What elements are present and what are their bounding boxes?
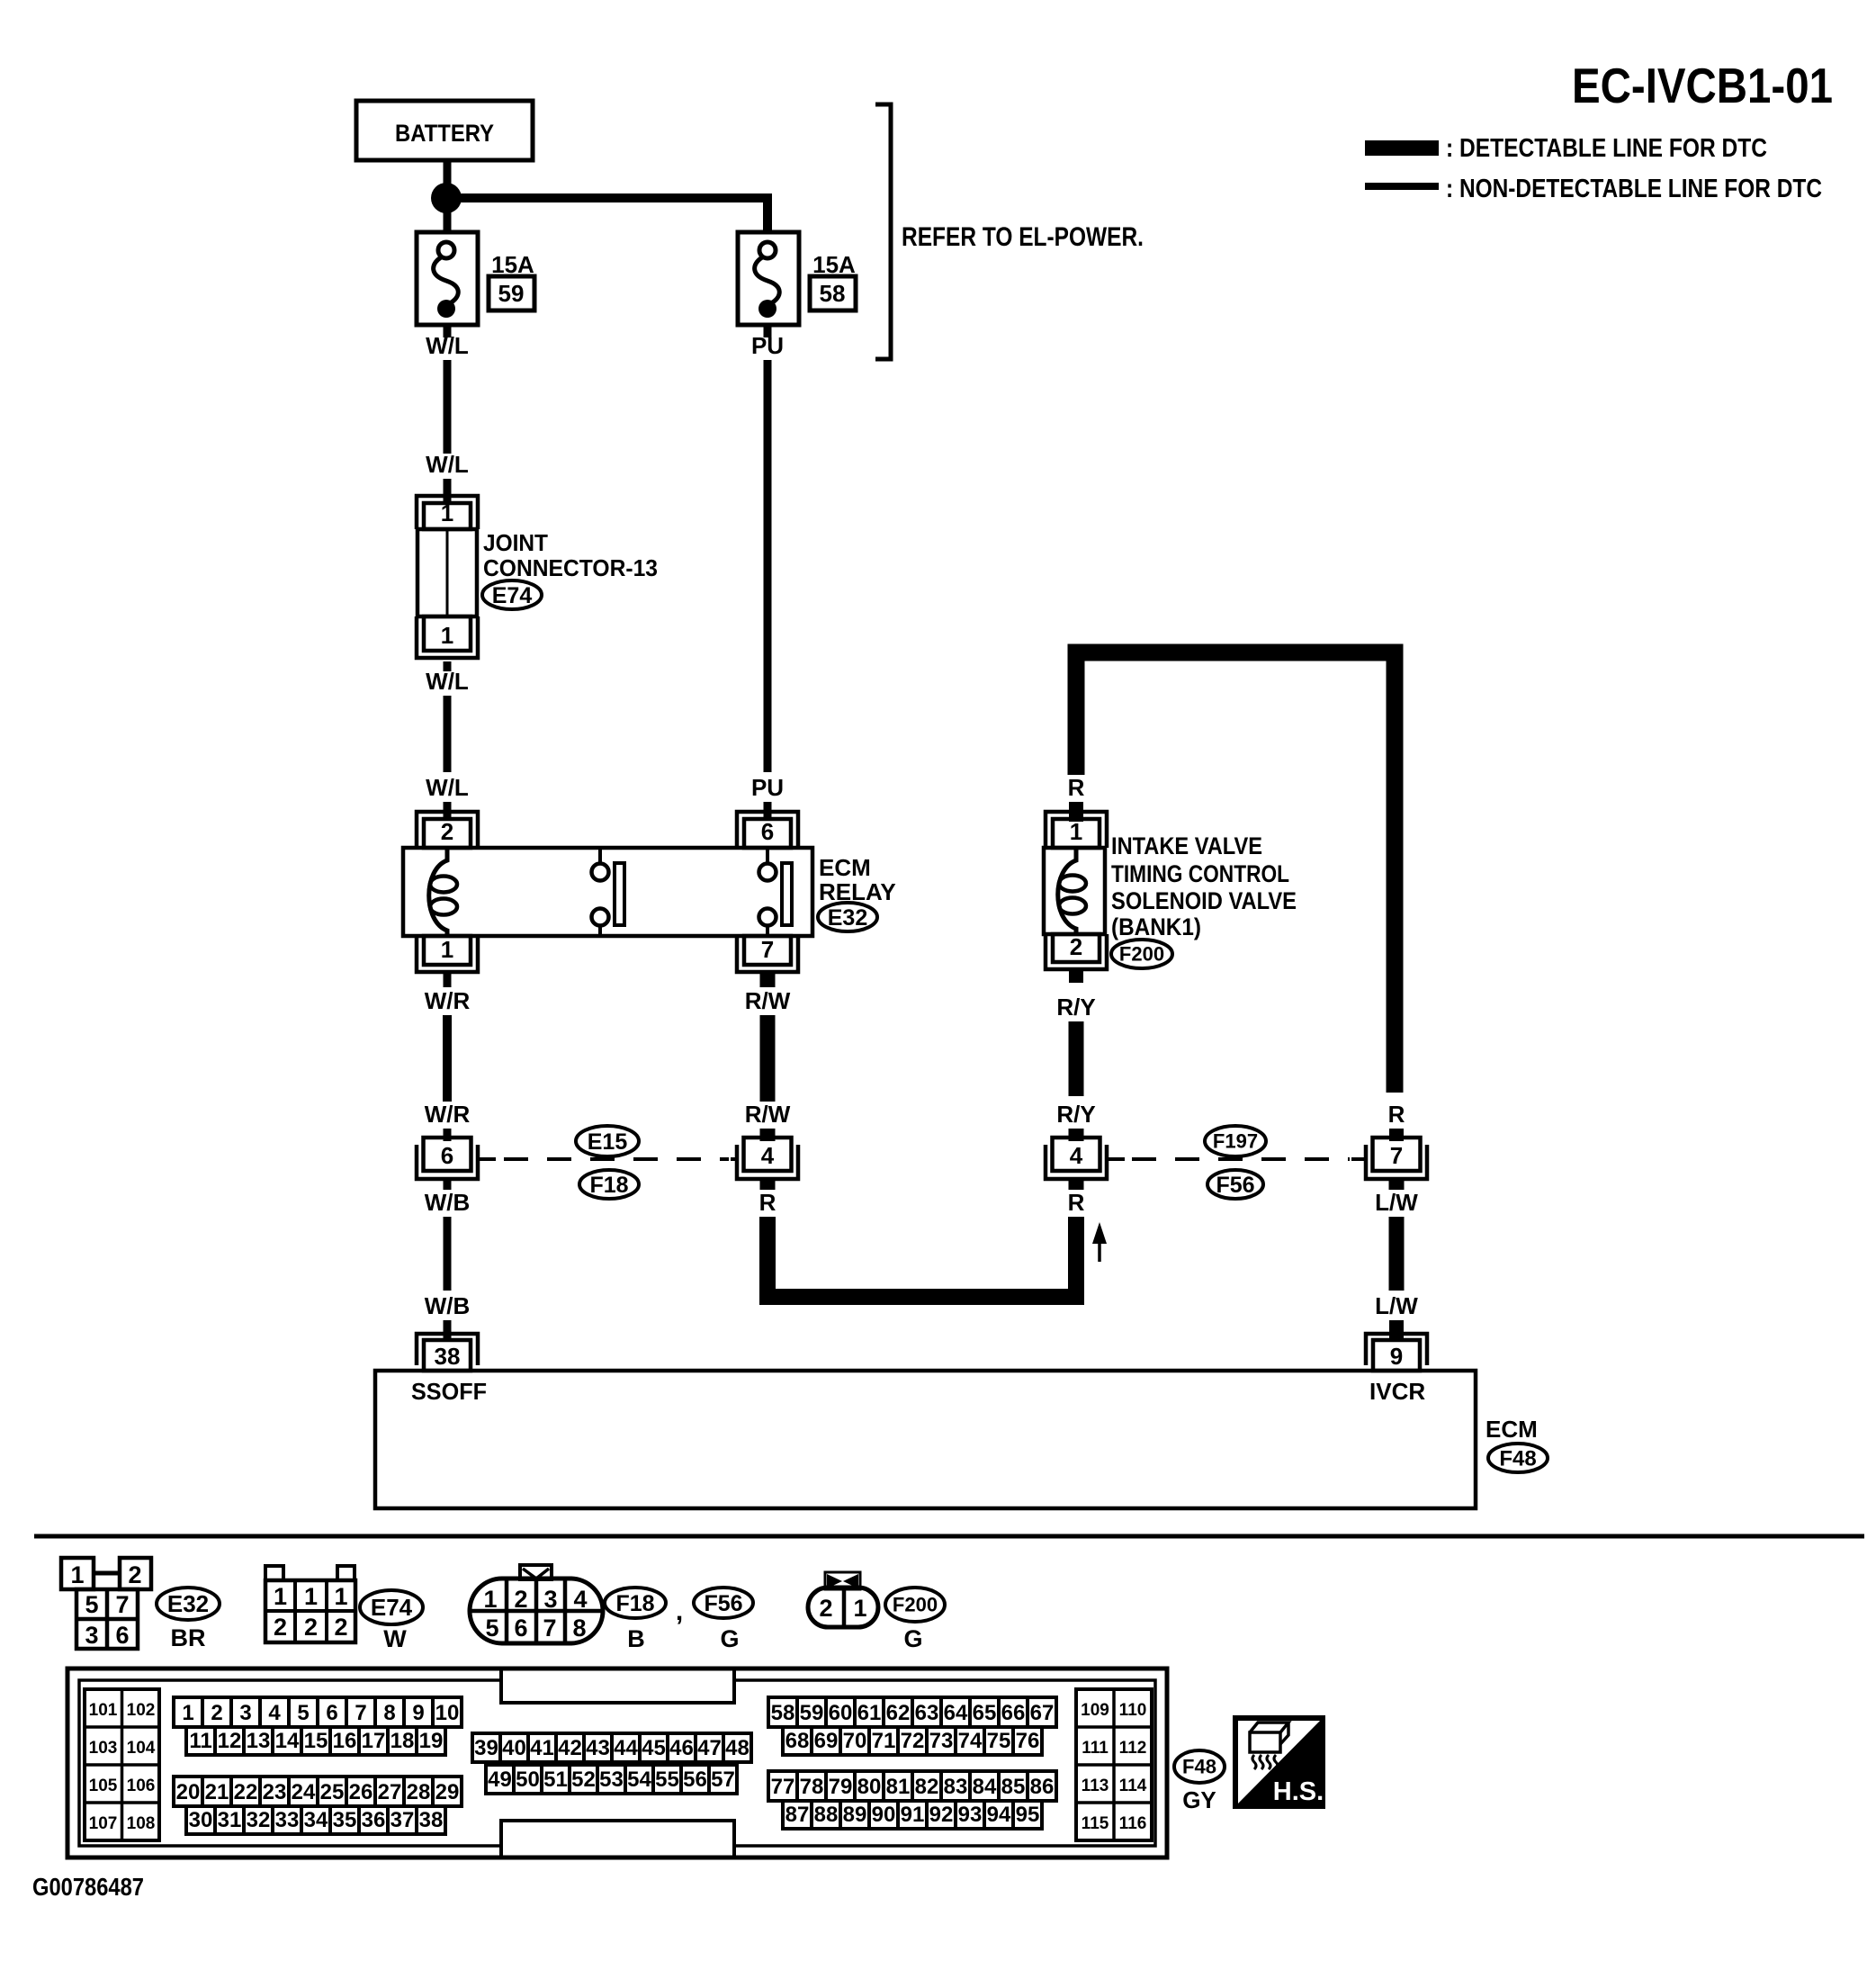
wire below connector 7 <box>1389 1179 1405 1190</box>
svg-text:2: 2 <box>334 1614 347 1641</box>
svg-text:68: 68 <box>785 1729 810 1753</box>
svg-text:W/L: W/L <box>426 774 469 801</box>
svg-text:72: 72 <box>901 1729 925 1753</box>
relay coil <box>429 848 457 936</box>
svg-text:E32: E32 <box>167 1590 209 1617</box>
svg-text:35: 35 <box>333 1808 357 1832</box>
svg-text:59: 59 <box>498 280 525 307</box>
svg-text:6: 6 <box>441 1142 453 1169</box>
svg-text:50: 50 <box>516 1768 540 1792</box>
dashed line 6 to 4 <box>480 1157 739 1161</box>
svg-text:1: 1 <box>441 499 453 526</box>
svg-text:89: 89 <box>843 1803 867 1827</box>
joint connector-13 body <box>417 529 477 616</box>
svg-text:7: 7 <box>1390 1142 1403 1169</box>
svg-text:66: 66 <box>1001 1701 1026 1725</box>
svg-text:75: 75 <box>987 1729 1011 1753</box>
svg-text:87: 87 <box>785 1803 810 1827</box>
svg-text:110: 110 <box>1119 1701 1147 1720</box>
label W/B <box>425 1189 471 1216</box>
svg-text:73: 73 <box>929 1729 954 1753</box>
wire W/B stub to ECM pin 38 <box>444 1320 452 1340</box>
ECM grid cells 11-19 <box>186 1727 445 1755</box>
svg-text:114: 114 <box>1119 1777 1147 1795</box>
svg-text:W: W <box>383 1625 407 1652</box>
wire below connector 4 left <box>760 1179 776 1190</box>
svg-text:2: 2 <box>1070 933 1082 960</box>
legend non-detectable text <box>1446 175 1822 203</box>
connector ref F200 <box>1111 940 1172 968</box>
label W/R <box>425 987 471 1014</box>
svg-text:17: 17 <box>362 1729 386 1753</box>
solenoid pin 2 <box>1046 933 1107 969</box>
svg-text:1: 1 <box>182 1701 193 1725</box>
ECM grid cells 58-67 <box>768 1697 1056 1727</box>
svg-text:53: 53 <box>599 1768 624 1792</box>
wire relay pin1 stub <box>444 972 452 987</box>
svg-text:26: 26 <box>349 1780 373 1804</box>
svg-text:9: 9 <box>1390 1343 1403 1370</box>
svg-text:CONNECTOR-13: CONNECTOR-13 <box>483 554 658 581</box>
svg-text:14: 14 <box>275 1729 300 1753</box>
svg-text:47: 47 <box>697 1736 722 1760</box>
wire R/W stub to connector 4 <box>760 1129 776 1141</box>
svg-text:58: 58 <box>820 280 846 307</box>
dashed line 4 to 7 <box>1109 1157 1366 1161</box>
svg-text:ECM: ECM <box>819 854 871 881</box>
wire W/L to relay <box>444 696 452 772</box>
svg-text:EC-IVCB1-01: EC-IVCB1-01 <box>1572 58 1833 113</box>
ECM grid cells 20-29 <box>174 1777 462 1806</box>
svg-text:5: 5 <box>485 1615 498 1642</box>
svg-text:59: 59 <box>800 1701 824 1725</box>
svg-text:84: 84 <box>973 1775 997 1799</box>
svg-text:67: 67 <box>1030 1701 1055 1725</box>
wire R stub to solenoid pin 1 <box>1069 802 1083 822</box>
svg-text:25: 25 <box>320 1780 345 1804</box>
svg-text:W/L: W/L <box>426 451 469 478</box>
connector ref E32 <box>157 1588 220 1620</box>
svg-text:F200: F200 <box>893 1594 938 1616</box>
svg-text:6: 6 <box>326 1701 337 1725</box>
svg-text:103: 103 <box>89 1739 118 1758</box>
harness symbol H.S. <box>1235 1718 1324 1806</box>
svg-text:1: 1 <box>334 1583 347 1610</box>
ECM grid cells 101-108 <box>85 1689 159 1840</box>
svg-text:74: 74 <box>958 1729 983 1753</box>
relay pin 6 <box>737 812 798 848</box>
ECM grid cells 109-116 <box>1076 1689 1152 1840</box>
svg-text:71: 71 <box>872 1729 896 1753</box>
wire fuse59 to W/L <box>444 325 452 337</box>
svg-text:24: 24 <box>292 1780 316 1804</box>
label B <box>627 1625 645 1652</box>
svg-text:92: 92 <box>929 1803 954 1827</box>
fuse 59 value 15A <box>491 251 534 278</box>
fuse 15A 59 <box>417 232 478 325</box>
wire R stub to connector 7 <box>1389 1129 1404 1141</box>
fuse 15A 58 <box>738 232 799 325</box>
svg-text:2: 2 <box>441 818 453 845</box>
svg-text:70: 70 <box>843 1729 867 1753</box>
svg-text:F200: F200 <box>1119 943 1164 966</box>
svg-text:45: 45 <box>642 1736 666 1760</box>
wire W/L stub to relay pin 2 <box>444 802 452 821</box>
svg-text:8: 8 <box>383 1701 395 1725</box>
svg-text:83: 83 <box>944 1775 968 1799</box>
svg-text:32: 32 <box>247 1808 271 1832</box>
svg-text:E32: E32 <box>828 905 867 931</box>
label W/L <box>426 451 469 478</box>
svg-text:27: 27 <box>378 1780 402 1804</box>
connector ref F56 <box>694 1588 753 1618</box>
svg-text:34: 34 <box>304 1808 328 1832</box>
label IVCR <box>1369 1378 1425 1405</box>
svg-text:4: 4 <box>268 1701 281 1725</box>
wire W/B segment <box>444 1217 452 1291</box>
svg-text:57: 57 <box>711 1768 735 1792</box>
label JOINT CONNECTOR-13 <box>483 529 658 581</box>
connector ref E15 <box>576 1126 639 1156</box>
ECM grid cells 39-48 <box>472 1733 751 1762</box>
svg-text:88: 88 <box>814 1803 839 1827</box>
wire PU stub to relay pin 6 <box>764 802 772 821</box>
svg-text:93: 93 <box>958 1803 983 1827</box>
svg-text:36: 36 <box>362 1808 386 1832</box>
label R/Y <box>1056 994 1095 1021</box>
svg-text:20: 20 <box>176 1780 201 1804</box>
wire below connector 4 right <box>1069 1179 1084 1190</box>
wire L/W stub to ECM pin 9 <box>1389 1320 1404 1340</box>
svg-text:E74: E74 <box>371 1594 413 1621</box>
label ECM RELAY <box>819 854 896 905</box>
svg-text:B: B <box>627 1625 645 1652</box>
joint connector pin 1 top <box>417 496 478 529</box>
connector ref F48 <box>1174 1750 1225 1783</box>
ECM grid cells 87-95 <box>783 1801 1042 1829</box>
svg-text:106: 106 <box>127 1777 156 1795</box>
svg-text:77: 77 <box>771 1775 795 1799</box>
svg-text:R/W: R/W <box>745 1101 791 1128</box>
ECM grid cells 49-57 <box>486 1765 737 1794</box>
label PU <box>751 774 784 801</box>
relay contact 2 <box>759 848 793 936</box>
svg-text:G00786487: G00786487 <box>32 1873 144 1901</box>
svg-text:1: 1 <box>1070 818 1082 845</box>
connector ref F197 <box>1205 1126 1266 1156</box>
wire relay pin7 stub <box>760 972 776 987</box>
svg-text:W/L: W/L <box>426 332 469 359</box>
svg-text:2: 2 <box>304 1614 318 1641</box>
svg-text:F197: F197 <box>1213 1130 1258 1153</box>
label R/Y <box>1056 1101 1095 1128</box>
svg-text:F56: F56 <box>704 1591 742 1616</box>
connector ref F200 <box>885 1588 945 1622</box>
svg-text:19: 19 <box>419 1729 444 1753</box>
label R/W <box>745 1101 791 1128</box>
svg-text:48: 48 <box>725 1736 750 1760</box>
svg-text:33: 33 <box>275 1808 300 1832</box>
wire PU long segment <box>764 360 772 772</box>
bracket refer to el-power <box>875 104 891 359</box>
connector 6 (E15/F18) <box>417 1138 478 1179</box>
relay pin 2 <box>417 812 478 848</box>
svg-text:29: 29 <box>435 1780 460 1804</box>
svg-text:R: R <box>759 1189 776 1216</box>
svg-text:1: 1 <box>441 936 453 963</box>
svg-text:102: 102 <box>127 1701 156 1720</box>
svg-text:R/Y: R/Y <box>1056 1101 1095 1128</box>
svg-text:95: 95 <box>1016 1803 1040 1827</box>
svg-text:R: R <box>1068 1189 1085 1216</box>
label GY <box>1182 1786 1216 1813</box>
svg-text:E15: E15 <box>588 1129 628 1155</box>
svg-text:,: , <box>676 1597 683 1626</box>
wire below joint connector <box>444 661 452 671</box>
svg-text:62: 62 <box>886 1701 911 1725</box>
arrow up <box>1092 1222 1107 1262</box>
label G <box>720 1625 739 1652</box>
svg-text:105: 105 <box>89 1777 118 1795</box>
ECM relay body E32 <box>403 848 812 936</box>
svg-text:(BANK1): (BANK1) <box>1111 913 1201 940</box>
svg-text:11: 11 <box>189 1729 211 1753</box>
label W/L <box>426 774 469 801</box>
label SSOFF <box>411 1378 487 1405</box>
svg-text:F56: F56 <box>1216 1173 1254 1198</box>
connector ref E74 <box>360 1590 423 1624</box>
svg-text:7: 7 <box>115 1591 129 1618</box>
wire junction to fuse 58 branch <box>459 193 767 232</box>
svg-text:51: 51 <box>543 1768 568 1792</box>
svg-text:38: 38 <box>435 1343 461 1370</box>
svg-text:3: 3 <box>543 1586 557 1613</box>
svg-text:H.S.: H.S. <box>1273 1777 1324 1806</box>
svg-text:R/Y: R/Y <box>1056 994 1095 1021</box>
svg-text:115: 115 <box>1082 1814 1109 1833</box>
svg-text:W/R: W/R <box>425 1101 471 1128</box>
svg-text:7: 7 <box>355 1701 366 1725</box>
svg-text:SOLENOID VALVE: SOLENOID VALVE <box>1111 887 1297 914</box>
label G <box>903 1625 922 1652</box>
junction dot <box>431 183 462 213</box>
svg-text:21: 21 <box>205 1780 229 1804</box>
legend detectable text <box>1446 134 1767 163</box>
ECM box F48 <box>375 1371 1476 1508</box>
svg-text:81: 81 <box>886 1775 911 1799</box>
connector 4 (F197/F56) <box>1046 1138 1107 1179</box>
label L/W <box>1375 1292 1418 1319</box>
svg-text:40: 40 <box>502 1736 526 1760</box>
svg-text:46: 46 <box>669 1736 694 1760</box>
label R/W <box>745 987 791 1014</box>
svg-text:TIMING CONTROL: TIMING CONTROL <box>1111 860 1289 887</box>
svg-text:28: 28 <box>407 1780 431 1804</box>
wire R/Y thick segment <box>1069 1021 1084 1096</box>
svg-text:85: 85 <box>1001 1775 1026 1799</box>
svg-text:JOINT: JOINT <box>483 529 548 556</box>
svg-text:23: 23 <box>263 1780 287 1804</box>
svg-text:69: 69 <box>814 1729 839 1753</box>
connector ref F48 <box>1488 1444 1548 1472</box>
wire L/W thick segment <box>1389 1217 1405 1291</box>
thick wire R loop <box>1076 652 1395 1093</box>
refer to el-power text <box>902 222 1144 252</box>
connector ref E32 <box>818 903 877 931</box>
svg-text:R: R <box>1388 1101 1405 1128</box>
ECM grid cells 30-38 <box>186 1806 445 1834</box>
svg-text:104: 104 <box>127 1739 156 1758</box>
svg-text:37: 37 <box>390 1808 415 1832</box>
svg-text:16: 16 <box>333 1729 357 1753</box>
svg-text:R/W: R/W <box>745 987 791 1014</box>
svg-text:10: 10 <box>435 1701 460 1725</box>
svg-text:4: 4 <box>573 1586 587 1613</box>
intake valve timing control solenoid valve body <box>1044 848 1105 934</box>
svg-text:F48: F48 <box>1182 1756 1216 1778</box>
svg-text:101: 101 <box>89 1701 118 1720</box>
fuse number 58 <box>810 276 856 310</box>
svg-text:F18: F18 <box>615 1591 654 1616</box>
svg-text:: NON-DETECTABLE LINE FOR DTC: : NON-DETECTABLE LINE FOR DTC <box>1446 175 1822 203</box>
svg-text:31: 31 <box>218 1808 242 1832</box>
svg-text:6: 6 <box>514 1615 527 1642</box>
svg-text:80: 80 <box>857 1775 882 1799</box>
svg-text:1: 1 <box>70 1561 84 1588</box>
svg-text:111: 111 <box>1082 1739 1109 1758</box>
label W/L <box>426 668 469 695</box>
svg-text:30: 30 <box>189 1808 213 1832</box>
svg-text:79: 79 <box>829 1775 853 1799</box>
battery <box>356 101 533 160</box>
label PU <box>751 332 784 359</box>
svg-text:38: 38 <box>419 1808 444 1832</box>
svg-text:F18: F18 <box>589 1173 628 1198</box>
svg-text:42: 42 <box>558 1736 582 1760</box>
doc number G00786487 <box>32 1873 144 1901</box>
wire fuse58 to PU <box>764 325 772 337</box>
svg-text:60: 60 <box>829 1701 853 1725</box>
wire below connector 6 <box>444 1179 452 1190</box>
svg-text:PU: PU <box>751 774 784 801</box>
svg-text:58: 58 <box>771 1701 795 1725</box>
ECM pin 38 <box>417 1334 478 1371</box>
svg-text:L/W: L/W <box>1375 1189 1418 1216</box>
svg-text:W/L: W/L <box>426 668 469 695</box>
svg-text:18: 18 <box>390 1729 415 1753</box>
label R above connector 7 <box>1388 1101 1405 1128</box>
connector face E74 <box>265 1566 355 1642</box>
svg-text:5: 5 <box>85 1591 98 1618</box>
wire W/L segment <box>444 360 452 454</box>
svg-text:52: 52 <box>571 1768 596 1792</box>
svg-text:SSOFF: SSOFF <box>411 1378 487 1405</box>
connector face F18/F56 <box>470 1565 603 1643</box>
svg-text:6: 6 <box>761 818 774 845</box>
svg-text:39: 39 <box>474 1736 498 1760</box>
comma <box>676 1597 683 1626</box>
svg-text:109: 109 <box>1081 1701 1109 1720</box>
ECM pin 9 <box>1366 1334 1427 1371</box>
svg-text:63: 63 <box>915 1701 939 1725</box>
svg-text:2: 2 <box>211 1701 222 1725</box>
svg-text:2: 2 <box>128 1561 141 1588</box>
label ECM <box>1486 1416 1538 1443</box>
legend detectable line sample <box>1365 140 1439 156</box>
label BR <box>171 1624 206 1651</box>
svg-text:L/W: L/W <box>1375 1292 1418 1319</box>
svg-text:G: G <box>720 1625 739 1652</box>
svg-text:1: 1 <box>483 1586 497 1613</box>
legend non-detectable line sample <box>1365 183 1439 190</box>
svg-text:RELAY: RELAY <box>819 878 896 905</box>
solenoid coil <box>1058 848 1086 934</box>
relay pin 7 <box>737 936 798 972</box>
svg-text:78: 78 <box>800 1775 824 1799</box>
svg-text:107: 107 <box>89 1814 118 1833</box>
label R <box>1068 774 1085 801</box>
svg-text:1: 1 <box>853 1595 866 1622</box>
svg-text:6: 6 <box>115 1622 129 1649</box>
wire W/R stub to connector 6 <box>444 1129 452 1141</box>
wire W/L to joint connector <box>444 479 452 501</box>
svg-text:7: 7 <box>761 936 774 963</box>
label L/W <box>1375 1189 1418 1216</box>
title EC-IVCB1-01 <box>1572 58 1833 113</box>
separator line <box>34 1534 1864 1539</box>
svg-text:BR: BR <box>171 1624 206 1651</box>
svg-text:9: 9 <box>412 1701 424 1725</box>
svg-text:GY: GY <box>1182 1786 1216 1813</box>
svg-text:F48: F48 <box>1499 1446 1536 1471</box>
wire solenoid pin2 stub <box>1069 969 1083 983</box>
connector face E32 <box>61 1558 151 1649</box>
thick U wire R <box>759 1217 1084 1305</box>
svg-text:3: 3 <box>85 1622 98 1649</box>
connector 7 (F197/F56) <box>1366 1138 1427 1179</box>
fuse 58 value 15A <box>812 251 856 278</box>
svg-text:ECM: ECM <box>1486 1416 1538 1443</box>
relay pin 1 <box>417 936 478 972</box>
svg-text:1: 1 <box>274 1583 287 1610</box>
wire R/Y stub to connector 4 <box>1069 1129 1084 1141</box>
svg-text:IVCR: IVCR <box>1369 1378 1425 1405</box>
svg-text:112: 112 <box>1119 1739 1147 1758</box>
connector ref F56 <box>1207 1170 1263 1199</box>
label W/L <box>426 332 469 359</box>
svg-text:W/B: W/B <box>425 1292 471 1319</box>
svg-text:W/B: W/B <box>425 1189 471 1216</box>
svg-text:22: 22 <box>234 1780 258 1804</box>
svg-text:44: 44 <box>614 1736 638 1760</box>
wire W/R segment <box>443 1015 452 1102</box>
ECM grid cells 77-86 <box>768 1771 1056 1801</box>
wire R/W thick segment <box>760 1015 776 1102</box>
svg-text:2: 2 <box>514 1586 527 1613</box>
svg-text:41: 41 <box>530 1736 554 1760</box>
svg-text:116: 116 <box>1119 1814 1147 1833</box>
svg-text:12: 12 <box>218 1729 242 1753</box>
connector ref F18 <box>605 1588 666 1618</box>
svg-text:108: 108 <box>127 1814 156 1833</box>
wire junction to fuse 59 <box>444 209 452 232</box>
svg-text:82: 82 <box>915 1775 939 1799</box>
svg-text:5: 5 <box>297 1701 309 1725</box>
svg-text:1: 1 <box>304 1583 318 1610</box>
svg-text:G: G <box>903 1625 922 1652</box>
svg-text:W/R: W/R <box>425 987 471 1014</box>
label R <box>1068 1189 1085 1216</box>
